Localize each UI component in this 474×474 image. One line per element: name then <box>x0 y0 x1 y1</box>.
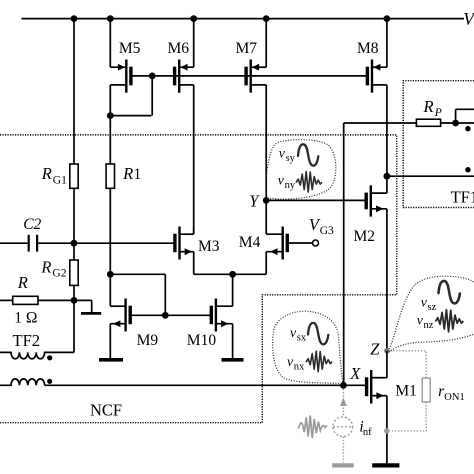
noise annotation blob at Z (v_sz, v_nz) <box>389 276 474 352</box>
wire M8 source to rail <box>386 19 388 68</box>
node C2 / RG1 / RG2 <box>71 240 78 247</box>
TF1 dashed box <box>403 81 474 208</box>
rail junction node above M7 <box>263 15 270 22</box>
svg-text:sz: sz <box>428 302 437 313</box>
wire X to M1 gate <box>343 384 366 386</box>
ground M1 <box>372 463 399 467</box>
ground (bias network) <box>81 312 101 315</box>
wire M5 diode connection <box>110 76 153 116</box>
svg-text:M4: M4 <box>239 234 261 251</box>
wire M8 drain down to output node <box>386 85 388 176</box>
resistor rON1 with dotted connections <box>390 351 465 431</box>
transistor M4 <box>239 227 287 260</box>
wire M6 drain to M3 drain <box>193 85 195 234</box>
svg-text:G3: G3 <box>320 225 334 237</box>
transistor M8 <box>357 40 387 93</box>
ground M9 <box>99 358 123 362</box>
wire M4 source down <box>265 252 267 275</box>
resistor RP <box>416 97 441 126</box>
transistor M1 <box>367 370 417 404</box>
node M8/M2 drain <box>384 173 391 180</box>
svg-text:R: R <box>423 97 434 116</box>
VG3 gate terminal <box>287 215 334 246</box>
node tail current <box>229 271 236 278</box>
transistor M3 <box>175 227 220 260</box>
node M5 gate-drain tie <box>149 73 156 80</box>
svg-text:M5: M5 <box>119 40 141 57</box>
noise annotation blob at Y (v_sy, v_ny) <box>266 140 336 201</box>
svg-text:M3: M3 <box>198 238 220 255</box>
wire left edge to C2 <box>0 242 28 244</box>
svg-text:P: P <box>434 107 442 119</box>
wire M7 source to rail <box>265 19 267 68</box>
node RP output <box>452 120 459 127</box>
svg-text:R: R <box>40 257 51 276</box>
svg-text:G1: G1 <box>53 175 67 187</box>
rail junction node above M8 <box>384 15 391 22</box>
svg-text:G2: G2 <box>52 268 66 280</box>
transistor M7 <box>236 40 267 93</box>
svg-text:sy: sy <box>286 153 296 164</box>
wire R to node <box>38 299 74 301</box>
ground i_nf (gray) <box>332 463 354 467</box>
svg-text:nf: nf <box>363 427 372 438</box>
wire M9 source to ground <box>109 324 111 358</box>
wire M4 drain up to node Y <box>265 200 267 234</box>
TF2 secondary polarity dot <box>47 379 52 384</box>
gate bus wire M9-M10 <box>130 314 213 316</box>
rail junction node above M5 <box>107 15 114 22</box>
node Z <box>370 340 389 359</box>
noise waveform glyph at i_nf <box>298 416 327 439</box>
wire M9 drain up <box>109 274 111 306</box>
wire rail to RG1 <box>73 19 75 164</box>
resistor RG2 <box>40 257 78 285</box>
svg-text:R: R <box>41 164 52 183</box>
noise current source i_nf <box>333 389 372 463</box>
wire mirror gates tie <box>110 274 165 315</box>
transistor M5 <box>110 40 140 93</box>
wire M5 drain down <box>109 85 111 116</box>
wire M3 drain up to M6 <box>193 227 195 235</box>
wire M3/M4 common source <box>194 273 267 275</box>
svg-text:Z: Z <box>370 340 380 359</box>
transistor M10 <box>187 299 233 349</box>
svg-text:1 Ω: 1 Ω <box>14 310 37 327</box>
rail junction node above M6 <box>190 15 197 22</box>
svg-text:M6: M6 <box>168 40 190 57</box>
wire X riser to RP <box>344 123 417 385</box>
svg-text:M7: M7 <box>236 40 258 57</box>
wire M1 drain to Z <box>386 351 388 378</box>
transformer TF2 primary winding <box>0 331 74 359</box>
transistor M2 <box>354 185 387 245</box>
resistor R 1 ohm <box>13 273 38 326</box>
wire M10 drain up to tail node <box>232 274 234 306</box>
svg-text:X: X <box>349 364 361 383</box>
svg-text:M9: M9 <box>137 332 159 349</box>
svg-text:V: V <box>463 9 474 29</box>
VDD supply rail wire <box>22 9 474 29</box>
wire TF2 secondary to node X <box>45 384 344 386</box>
svg-text:nz: nz <box>424 320 434 331</box>
wire C2 to M3 gate <box>38 242 175 244</box>
transistor M6 <box>168 40 194 93</box>
svg-text:C2: C2 <box>23 216 41 233</box>
svg-text:nx: nx <box>294 362 305 373</box>
wire RG2 bottom to node <box>73 285 75 300</box>
svg-text:R: R <box>122 164 133 183</box>
wire M6 source to rail <box>193 19 195 68</box>
resistor RG1 <box>41 164 78 188</box>
wire Y to M2 gate <box>266 199 366 201</box>
svg-text:M2: M2 <box>354 228 376 245</box>
TF2 primary polarity dot <box>47 355 52 360</box>
svg-text:TF1: TF1 <box>451 187 474 206</box>
svg-text:M10: M10 <box>187 332 217 349</box>
noise annotation blob at X (v_sx, v_nx) <box>273 311 343 384</box>
node mirror gate bus <box>162 312 169 319</box>
svg-text:M8: M8 <box>357 40 379 57</box>
gate bus wire M5-M8 <box>131 75 368 77</box>
transformer TF2 secondary winding <box>0 379 45 385</box>
svg-text:R: R <box>17 273 28 292</box>
wire M10 source to ground <box>232 324 234 358</box>
svg-text:TF2: TF2 <box>13 331 41 350</box>
svg-text:NCF: NCF <box>90 401 122 420</box>
svg-text:sx: sx <box>297 333 307 344</box>
svg-text:ON1: ON1 <box>444 392 464 403</box>
wire node to ground stub <box>74 300 92 312</box>
NCF label <box>90 401 122 420</box>
capacitor C2 <box>23 216 41 252</box>
wire M1 source down <box>386 396 388 464</box>
wire M3 source down <box>193 252 195 275</box>
rail junction node above M5 diode wire <box>71 15 78 22</box>
wire output node to TF1 <box>387 175 474 177</box>
wire TF2 primary to RG2 node <box>73 300 75 352</box>
resistor R1 <box>106 164 141 188</box>
node M1 source / rON1 <box>384 428 390 434</box>
NCF dashed region border <box>0 135 397 423</box>
TF1 winding polarity dot upper <box>465 126 470 131</box>
node RG2 / R / TF2 <box>71 297 78 304</box>
ground M10 <box>222 358 244 362</box>
wire M2 source down to node Z <box>386 209 388 351</box>
wire M7 drain to node Y <box>265 85 267 200</box>
node M5 drain <box>107 112 114 119</box>
svg-text:M1: M1 <box>395 383 417 400</box>
wire M2 drain to output node <box>386 176 388 193</box>
svg-text:ny: ny <box>285 180 296 191</box>
node X <box>340 364 361 388</box>
wire left edge to R <box>0 299 13 301</box>
wire RG1 to C2 node <box>73 188 75 243</box>
wire RG2 top <box>73 243 75 260</box>
TF1 winding polarity dot lower <box>465 167 470 172</box>
wire R1 down to M9 drain node <box>109 188 111 274</box>
svg-text:1: 1 <box>134 166 142 183</box>
wire RP to output dot <box>441 122 474 124</box>
wire M5 source to rail <box>109 19 111 68</box>
wire M5 drain to R1 <box>109 116 111 164</box>
node R1 / M9 drain <box>107 271 114 278</box>
wire RP loop to TF1 <box>456 109 474 123</box>
node Y <box>249 191 269 210</box>
transistor M9 <box>110 299 158 349</box>
